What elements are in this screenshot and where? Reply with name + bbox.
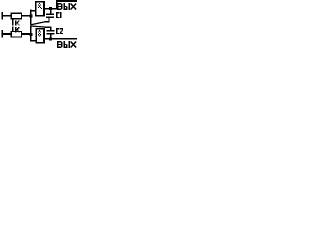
wire bbox=[56, 0, 58, 9]
value label С2 bbox=[56, 28, 63, 34]
symbol U1 bbox=[38, 3, 42, 9]
wire bbox=[30, 10, 32, 26]
capacitor C1 bbox=[46, 9, 54, 21]
block U1 bbox=[35, 1, 45, 16]
wire bbox=[30, 40, 36, 42]
wire bbox=[44, 21, 49, 22]
symbol U2 bbox=[38, 30, 41, 36]
wire bbox=[21, 33, 30, 35]
value label 1к bbox=[12, 26, 20, 32]
node B2 junction bbox=[49, 37, 52, 40]
node A2 junction bbox=[29, 33, 32, 36]
node B1 junction bbox=[49, 7, 52, 10]
wire bbox=[44, 8, 56, 10]
node A1 junction bbox=[29, 15, 32, 18]
terminal X1 bbox=[1, 12, 3, 20]
block U2 bbox=[35, 28, 45, 43]
wire bbox=[30, 10, 36, 12]
resistor R2 bbox=[11, 31, 21, 37]
wire bbox=[3, 33, 11, 35]
output label ВЫХ (top) bbox=[57, 3, 76, 10]
wire bbox=[3, 15, 11, 17]
wire bbox=[30, 26, 44, 27]
wire bbox=[30, 26, 32, 42]
value label 1к bbox=[12, 20, 20, 26]
capacitor C2 bbox=[44, 27, 54, 39]
wire bbox=[30, 22, 44, 25]
resistor R1 bbox=[11, 13, 21, 19]
wire bbox=[44, 38, 77, 40]
value label С1 bbox=[56, 12, 61, 18]
wire bbox=[56, 0, 77, 2]
terminal X2 bbox=[1, 30, 3, 38]
wire bbox=[21, 15, 30, 17]
output label ВЫХ (bottom) bbox=[57, 41, 76, 48]
